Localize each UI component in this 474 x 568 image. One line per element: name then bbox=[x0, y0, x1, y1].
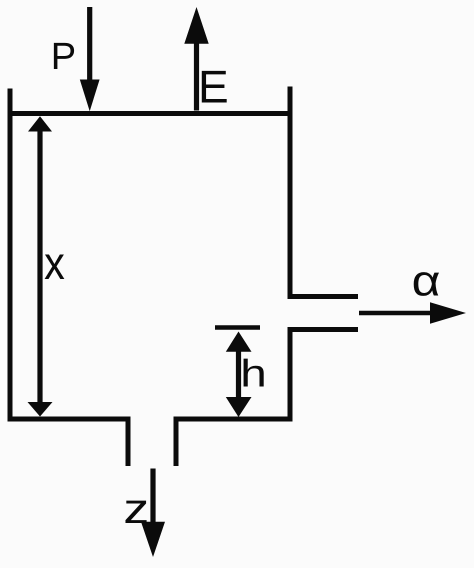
tank right wall lower segment bbox=[288, 327, 293, 422]
bottom outlet left wall bbox=[126, 417, 131, 466]
tank bottom line right part bbox=[174, 417, 293, 422]
outlet lower lip bbox=[288, 327, 359, 332]
arrow alpha (side outflow, rightward) bbox=[359, 302, 466, 323]
arrow z (bottom outflow, downward) bbox=[141, 469, 165, 558]
svg-text:E: E bbox=[198, 60, 229, 112]
bottom outlet right wall bbox=[174, 417, 179, 466]
svg-text:z: z bbox=[123, 486, 149, 533]
svg-text:h: h bbox=[240, 352, 267, 395]
svg-text:P: P bbox=[51, 36, 76, 78]
tank left wall bbox=[8, 89, 13, 422]
outlet upper lip bbox=[288, 294, 359, 299]
tank bottom line left part bbox=[8, 417, 131, 422]
tank right wall upper segment bbox=[288, 87, 293, 300]
double arrow h (outlet height) bbox=[226, 332, 252, 418]
arrow P (precipitation, downward into tank) bbox=[80, 7, 100, 111]
h reference bar bbox=[215, 325, 260, 330]
svg-text:α: α bbox=[412, 257, 441, 305]
svg-text:x: x bbox=[44, 237, 65, 290]
arrow E (evaporation, upward out of tank) bbox=[184, 7, 208, 111]
tank top line bbox=[8, 111, 293, 116]
double arrow x (water depth) bbox=[28, 116, 53, 416]
